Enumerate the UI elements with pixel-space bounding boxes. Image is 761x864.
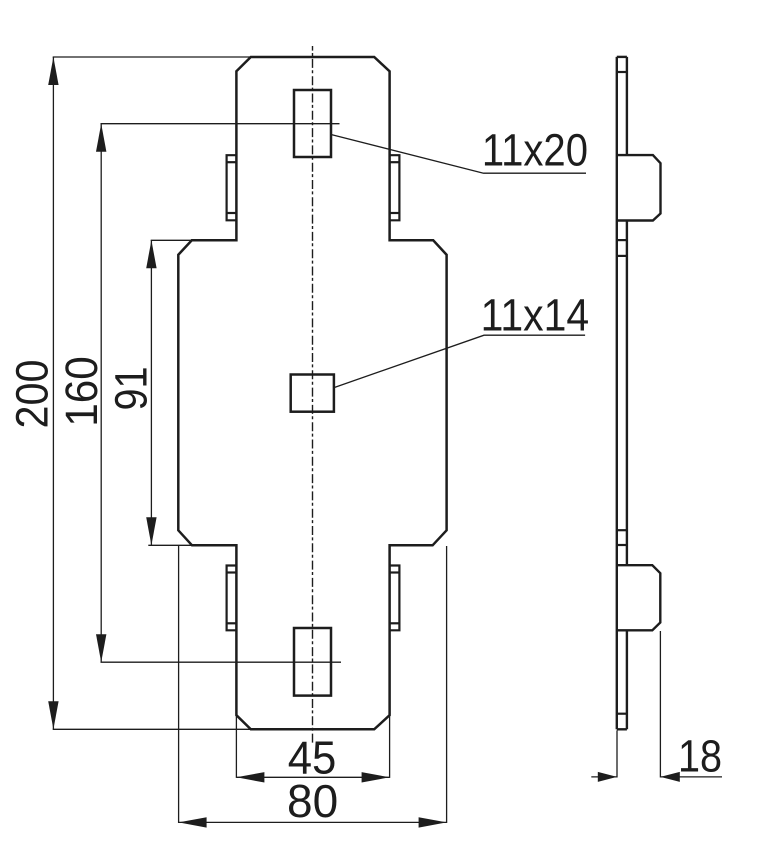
tab top-right [389, 155, 399, 220]
dimension 200 extension bottom [53, 728, 255, 730]
dimension 80 line [179, 817, 447, 827]
side view edge lines [617, 72, 627, 714]
dimension 91 line [146, 240, 156, 545]
svg-text:200: 200 [8, 359, 58, 428]
dimension 18 lines [591, 772, 722, 782]
side view tab bottom [617, 565, 661, 630]
dimension 91 extension bottom [148, 544, 196, 546]
svg-text:160: 160 [57, 356, 107, 427]
dimension 160 extension top [101, 123, 340, 125]
svg-text:11x14: 11x14 [481, 291, 590, 341]
dimension 200 line [48, 57, 58, 729]
dimension 45 extension left [235, 715, 237, 778]
dimension 160 line [96, 124, 106, 663]
svg-text:91: 91 [106, 366, 156, 410]
tab bottom-right [389, 566, 399, 631]
dimension 80 extension right [446, 546, 448, 823]
dimension 200 extension top [53, 56, 255, 58]
dimension 45 line [236, 772, 389, 782]
leader 11x14 [334, 335, 585, 387]
slot center 11x14 [291, 375, 334, 412]
dimension 45 extension right [389, 715, 391, 778]
center line [312, 46, 314, 743]
slot top 11x20 [294, 90, 331, 157]
dimension 18 extension right [659, 631, 661, 778]
dimension 160 extension bottom [101, 661, 342, 663]
dimension 80 extension left [178, 546, 180, 823]
slot bottom 11x20 [294, 628, 331, 696]
dimension 91 extension top [151, 239, 196, 241]
tab bottom-left [227, 566, 237, 631]
svg-text:11x20: 11x20 [482, 125, 588, 176]
side view plate [617, 57, 627, 729]
svg-text:80: 80 [287, 775, 338, 827]
svg-text:18: 18 [678, 731, 722, 781]
dimension 18 extension left [616, 731, 618, 778]
tab top-left [227, 155, 237, 220]
side view tab top [617, 155, 661, 220]
front view outline [178, 57, 446, 729]
leader 11x20 [331, 135, 586, 174]
